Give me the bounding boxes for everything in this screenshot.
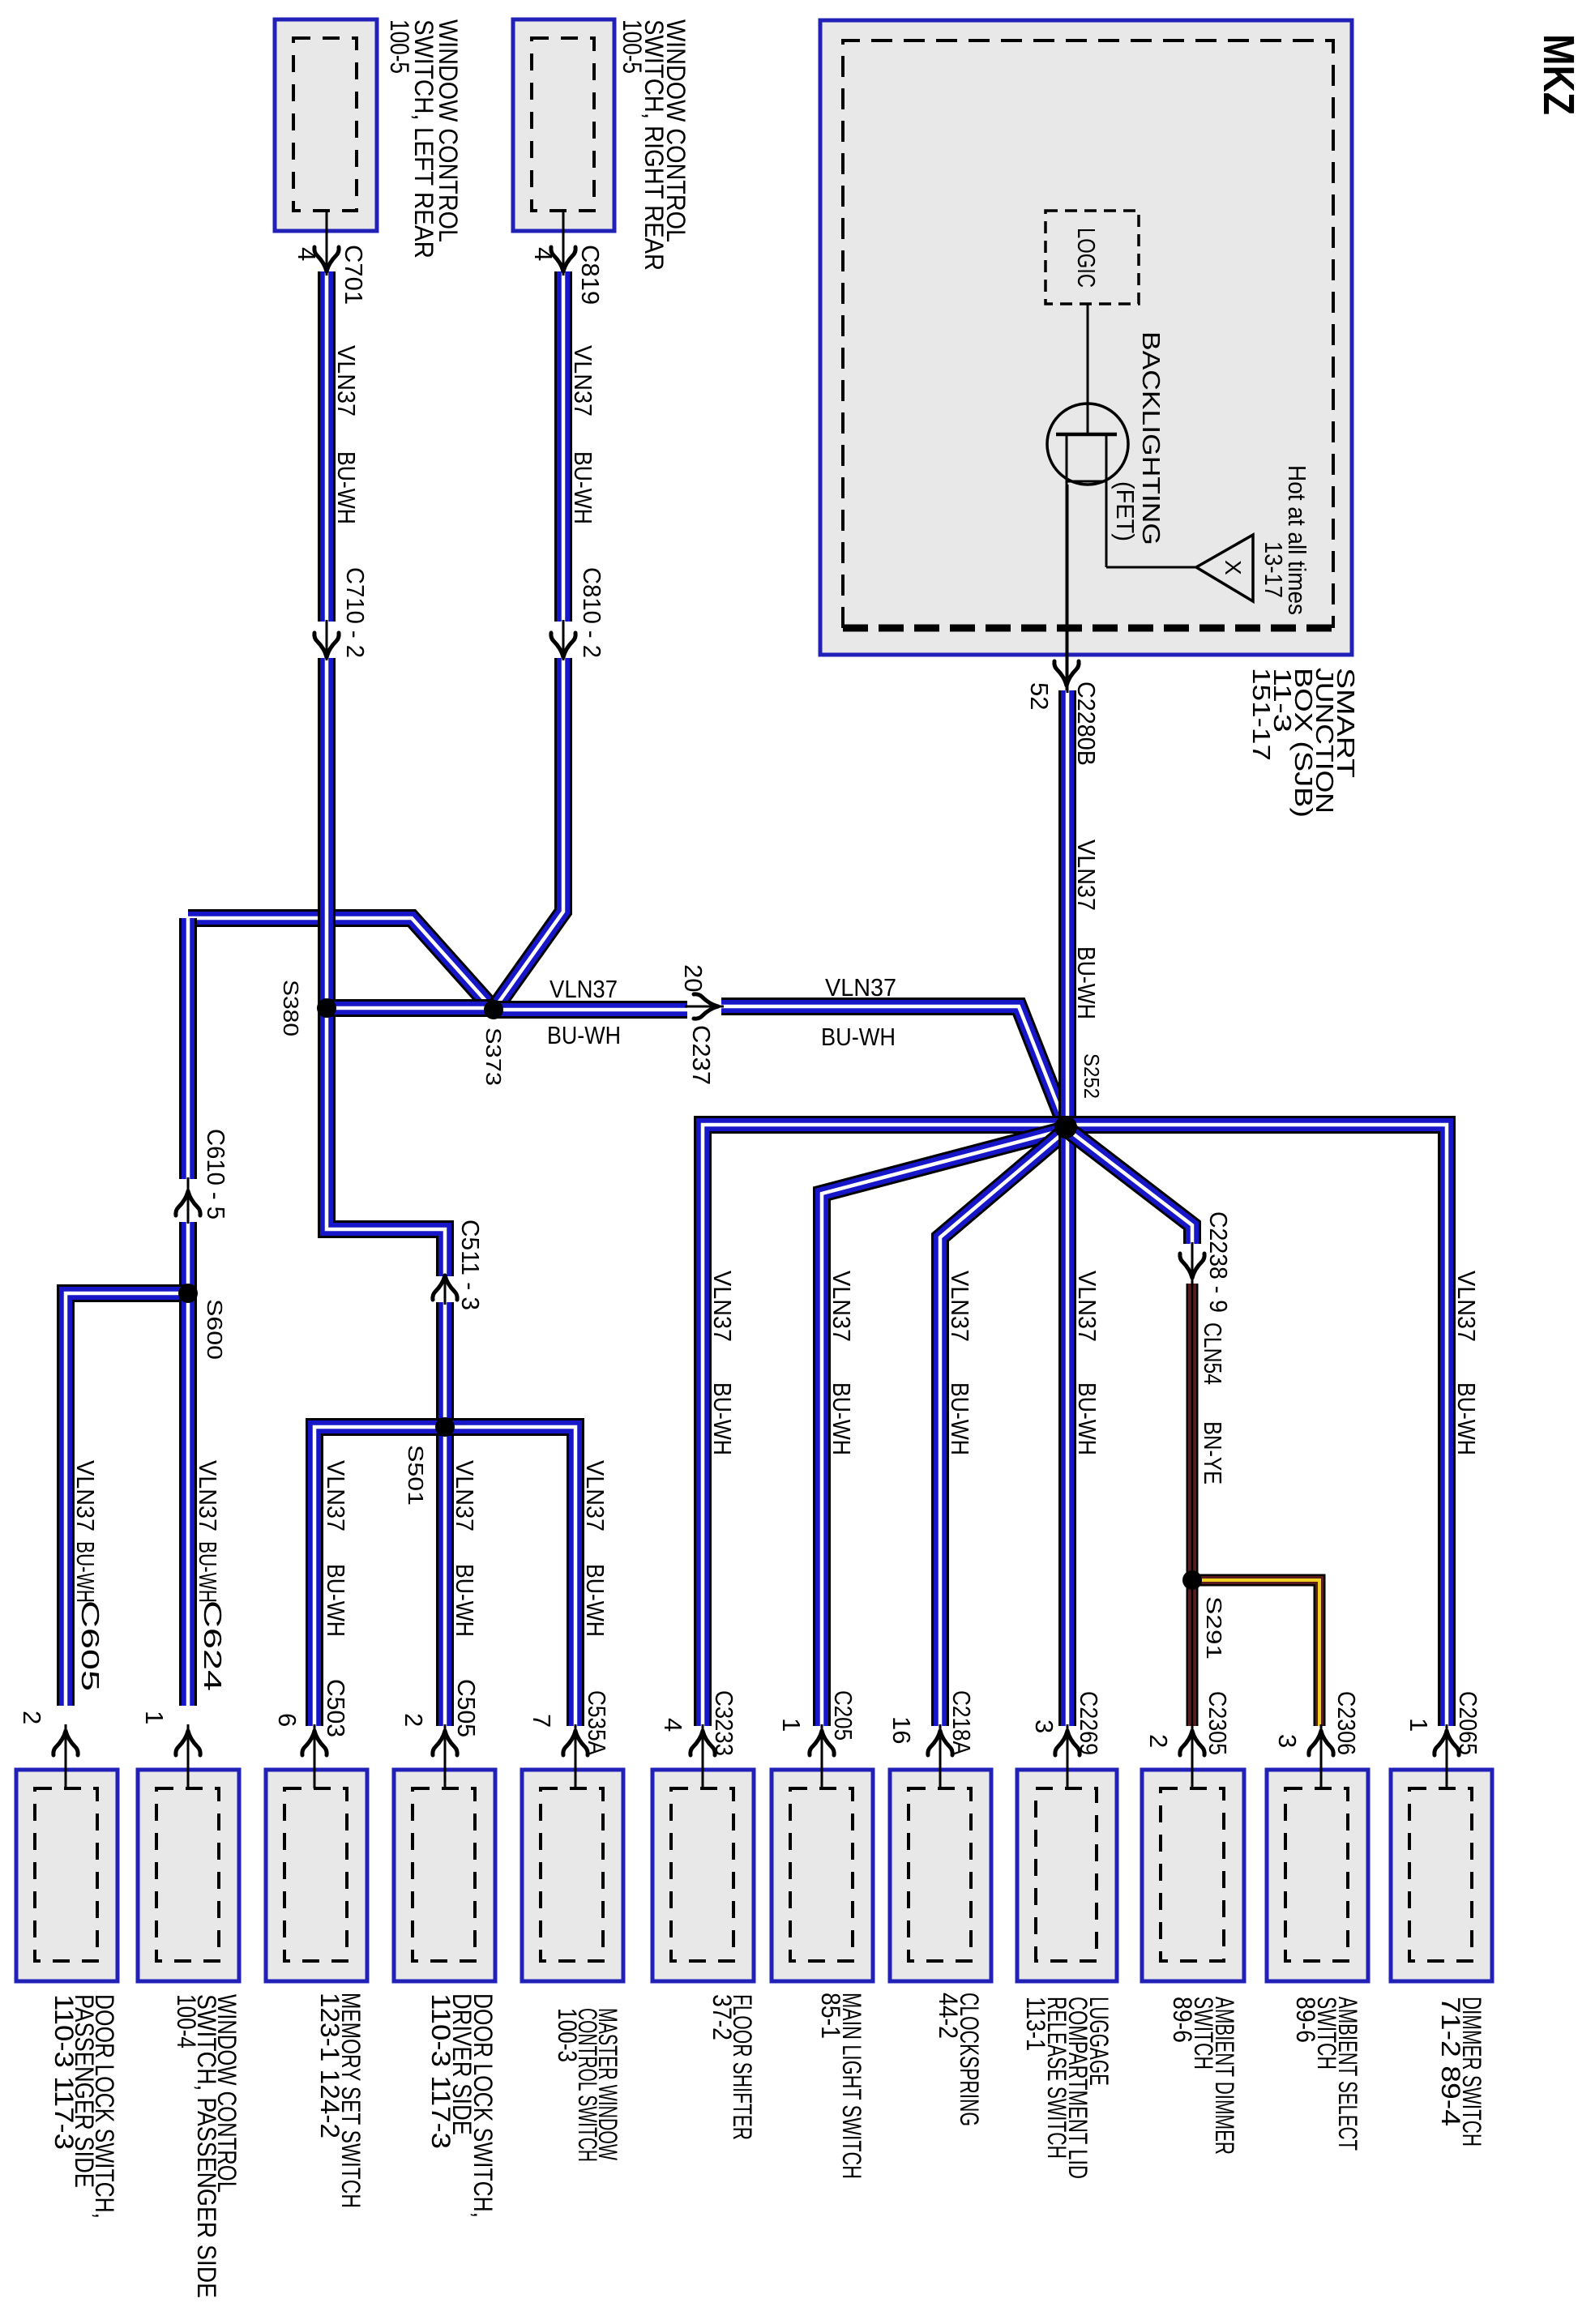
svg-text:VLN37: VLN37 [322, 1460, 350, 1532]
svg-text:100-3: 100-3 [553, 2008, 582, 2062]
svg-text:16: 16 [887, 1716, 916, 1744]
svg-text:VLN37: VLN37 [569, 345, 597, 417]
svg-text:BU-WH: BU-WH [547, 1021, 621, 1049]
connector box: AMBIENT DIMMER SWITCH [1142, 1770, 1244, 1981]
label clockspring [934, 1993, 984, 2126]
connector box: DIMMER SWITCH [1391, 1770, 1492, 1981]
svg-text:S380: S380 [279, 980, 303, 1036]
connector arrow bottom box 9 [1055, 1731, 1080, 1755]
connector arrow C701 [314, 247, 339, 271]
svg-text:VLN37: VLN37 [71, 1460, 100, 1532]
label floor shifter [708, 1994, 757, 2140]
svg-text:1: 1 [1405, 1718, 1433, 1732]
connector box: MEMORY SET SWITCH [266, 1770, 367, 1981]
wire logic to FET gate [1087, 304, 1089, 434]
svg-text:100-4: 100-4 [172, 1994, 201, 2048]
svg-text:44-2: 44-2 [934, 1993, 963, 2039]
wire VLN37 from C819 upper segment [554, 271, 572, 622]
connector arrow bottom box 8 [928, 1731, 952, 1755]
wire CLN54 BN-YE S291 to C2305 [1187, 1580, 1199, 1726]
stub at C710-2 [326, 620, 328, 660]
svg-text:110-3 117-3: 110-3 117-3 [426, 1993, 455, 2149]
svg-text:C710 - 2: C710 - 2 [341, 567, 370, 658]
wire FET drain to fuse [1106, 566, 1196, 569]
svg-text:C205: C205 [829, 1690, 857, 1741]
stub into bottom box 6 [702, 1724, 704, 1788]
wire VLN37 S252 down to C2269 [1058, 1127, 1076, 1726]
svg-text:C610 - 5: C610 - 5 [202, 1129, 230, 1220]
wire VLN37 S252 diagonal to C2238-9 [1070, 1131, 1192, 1244]
connector arrow bottom box 3 [302, 1731, 327, 1755]
connector arrow bottom box 2 [176, 1731, 200, 1755]
svg-text:C3233: C3233 [710, 1690, 738, 1756]
wire VLN37 S252 bus right to C2065 [1066, 1125, 1447, 1726]
stub into bottom box 11 [1320, 1724, 1323, 1788]
svg-text:C535A: C535A [583, 1690, 611, 1755]
svg-text:C2238 - 9: C2238 - 9 [1204, 1211, 1233, 1313]
svg-text:VLN37: VLN37 [946, 1271, 974, 1342]
connector arrow bottom box 7 [810, 1731, 834, 1755]
connector box: CLOCKSPRING [890, 1770, 991, 1981]
wire VLN37 horizontal branch to S373 [188, 918, 494, 1010]
svg-text:BU-WH: BU-WH [1072, 946, 1101, 1019]
stub into bottom box 8 [939, 1724, 942, 1788]
svg-text:S291: S291 [1202, 1596, 1226, 1660]
svg-text:(FET): (FET) [1111, 481, 1140, 541]
svg-text:X: X [1221, 560, 1246, 575]
wire VLN37 SJB C2280B to S252 trunk [1058, 690, 1076, 1127]
svg-text:100-5: 100-5 [385, 19, 414, 74]
splice S373 [484, 1000, 503, 1019]
label ambient select switch [1291, 1997, 1362, 2151]
svg-text:1: 1 [777, 1718, 806, 1732]
svg-text:89-6: 89-6 [1168, 1997, 1197, 2043]
fuse symbol (triangle with X) [1196, 535, 1253, 601]
svg-text:BU-WH: BU-WH [821, 1023, 896, 1051]
svg-text:VLN37: VLN37 [451, 1460, 479, 1532]
FET channel left / source lead [1066, 434, 1068, 690]
smart junction box SJB outline [820, 20, 1352, 655]
svg-text:C810 - 2: C810 - 2 [578, 567, 606, 658]
wire VLN37 S252 diagonal to C205 [822, 1130, 1062, 1726]
wire VLN37 branch down to C610-5 [179, 918, 197, 1179]
svg-text:VLN37: VLN37 [549, 975, 618, 1003]
svg-text:S600: S600 [203, 1299, 227, 1360]
stub into bottom box 3 [314, 1724, 316, 1788]
svg-text:BU-WH: BU-WH [581, 1564, 609, 1637]
wire VLN37 S373 to C237 [494, 1001, 687, 1019]
connector arrow bottom box 1 [53, 1731, 78, 1755]
wire CLN54 BN-YE S291 to C2306 [1192, 1580, 1319, 1726]
splice S252 [1054, 1116, 1077, 1139]
svg-text:1: 1 [140, 1711, 169, 1724]
label window control switch left rear [385, 19, 463, 258]
svg-text:BACKLIGHTING: BACKLIGHTING [1137, 331, 1165, 545]
connector box: DOOR LOCK SWITCH DRIVER SIDE [394, 1770, 495, 1981]
label master window control switch [553, 2008, 622, 2162]
svg-text:BU-WH: BU-WH [194, 1541, 222, 1603]
svg-text:13-17: 13-17 [1259, 541, 1288, 598]
connector arrow C710-2 [314, 633, 339, 657]
wire VLN37 C710-2 to S380 and down to bend [327, 658, 445, 1276]
svg-text:71-2 89-4: 71-2 89-4 [1436, 1997, 1465, 2126]
wire VLN37 S252 bus left to C3233 [703, 1125, 1066, 1726]
wire VLN37 C810-2 to S373 via diagonal [494, 658, 563, 1010]
stub at C810-2 [562, 620, 565, 660]
svg-text:C701: C701 [340, 245, 368, 305]
FET transistor circle [1047, 404, 1128, 485]
svg-text:2: 2 [1144, 1734, 1173, 1748]
svg-text:C237: C237 [687, 1025, 716, 1085]
svg-text:BU-WH: BU-WH [451, 1564, 479, 1637]
svg-text:VLN37: VLN37 [825, 973, 896, 1002]
stub at C610-5 [187, 1177, 190, 1224]
connector box: MASTER WINDOW CONTROL SWITCH [522, 1770, 623, 1981]
FET channel right / drain lead [1105, 434, 1108, 567]
connector box: LUGGAGE COMPARTMENT LID RELEASE SWITCH [1017, 1770, 1117, 1981]
wire S501 bar to C503 and C535A [314, 1427, 575, 1726]
stub into bottom box 1 [65, 1724, 67, 1788]
svg-text:VLN37: VLN37 [332, 345, 361, 417]
svg-text:2: 2 [18, 1711, 46, 1724]
svg-text:4: 4 [529, 247, 558, 261]
label dimmer switch [1436, 1997, 1486, 2147]
svg-text:S373: S373 [481, 1027, 506, 1086]
svg-text:C218A: C218A [947, 1690, 976, 1755]
label SJB name [1247, 668, 1360, 818]
label luggage compartment lid release switch [1021, 1997, 1114, 2179]
svg-text:123-1 124-2: 123-1 124-2 [315, 1993, 344, 2138]
wire VLN37 from C701 upper segment [318, 271, 336, 622]
connector box: WINDOW CONTROL SWITCH RIGHT REAR [513, 19, 614, 231]
connector arrow C237 [694, 994, 718, 1019]
splice S291 [1182, 1570, 1202, 1590]
svg-text:MKZ: MKZ [1534, 34, 1583, 115]
svg-text:S252: S252 [1080, 1053, 1104, 1099]
label window control switch right rear [618, 19, 691, 271]
svg-text:2: 2 [400, 1713, 428, 1727]
svg-text:C819: C819 [576, 245, 605, 305]
svg-text:VLN37: VLN37 [708, 1271, 737, 1342]
svg-text:VLN37: VLN37 [1452, 1271, 1481, 1342]
svg-text:3: 3 [1273, 1734, 1302, 1748]
svg-text:4: 4 [659, 1718, 687, 1732]
svg-text:20: 20 [679, 964, 708, 992]
label door lock switch passenger side [49, 1994, 119, 2219]
wire VLN37 C237 to S252 [721, 1006, 1066, 1126]
connector arrow C2280B [1054, 661, 1079, 686]
label window control switch passenger side [172, 1994, 242, 2298]
connector arrow bottom box 6 [691, 1731, 715, 1755]
svg-text:C2306: C2306 [1332, 1691, 1361, 1755]
FET gate bar [1056, 433, 1117, 437]
svg-text:100-5: 100-5 [618, 19, 647, 74]
svg-text:BU-WH: BU-WH [827, 1382, 856, 1455]
wire VLN37 C511-3 to S501 to C505 [436, 1302, 454, 1726]
stub C2280B from SJB [1067, 485, 1069, 693]
label door lock switch driver side [426, 1993, 498, 2218]
connector arrow bottom box 12 [1435, 1731, 1459, 1755]
svg-text:37-2: 37-2 [708, 1994, 737, 2040]
stub at C237 [685, 1006, 724, 1008]
svg-text:VLN37: VLN37 [581, 1460, 609, 1532]
svg-text:S501: S501 [404, 1445, 428, 1506]
splice S600 [178, 1284, 198, 1303]
connector arrow bottom box 4 [433, 1731, 457, 1755]
connector arrow C511-3 [433, 1275, 457, 1300]
svg-text:52: 52 [1025, 682, 1054, 710]
svg-text:VLN37: VLN37 [1072, 839, 1101, 911]
stub into bottom box 7 [821, 1724, 823, 1788]
svg-text:VLN37: VLN37 [1073, 1271, 1101, 1342]
wire VLN37 S380 to S373 [327, 999, 494, 1017]
stub into bottom box 12 [1446, 1724, 1448, 1788]
splice S501 [435, 1417, 455, 1437]
connector box: AMBIENT SELECT SWITCH [1267, 1770, 1368, 1981]
FET channel bottom [1066, 481, 1106, 483]
svg-text:C503: C503 [322, 1679, 350, 1737]
stub into bottom box 2 [187, 1724, 190, 1788]
svg-text:BU-WH: BU-WH [71, 1541, 100, 1603]
svg-text:7: 7 [528, 1714, 556, 1728]
label memory set switch [315, 1993, 366, 2208]
svg-text:LOGIC: LOGIC [1072, 228, 1101, 288]
svg-text:113-1: 113-1 [1021, 1997, 1050, 2051]
connector arrow C819 [551, 247, 575, 271]
logic block (dashed) [1046, 211, 1139, 304]
svg-text:C505: C505 [452, 1679, 481, 1737]
connector box: MAIN LIGHT SWITCH [772, 1770, 873, 1981]
svg-text:C605: C605 [76, 1600, 105, 1691]
wire VLN37 S600 down to C624 [179, 1293, 197, 1706]
svg-text:BU-WH: BU-WH [569, 451, 597, 524]
svg-text:110-3 117-3: 110-3 117-3 [49, 1994, 79, 2150]
stub C819 into box [562, 209, 565, 276]
splice S380 [317, 998, 336, 1018]
stub into bottom box 10 [1191, 1724, 1194, 1788]
stub into bottom box 4 [444, 1724, 447, 1788]
connector box: DOOR LOCK SWITCH PASSENGER SIDE [16, 1770, 118, 1981]
connector arrow C2238-9 [1180, 1254, 1204, 1278]
connector box: WINDOW CONTROL SWITCH PASSENGER SIDE [138, 1770, 239, 1981]
stub C701 into box [326, 209, 328, 276]
connector arrow bottom box 10 [1180, 1731, 1204, 1755]
stub at C2238-9 [1191, 1242, 1194, 1286]
connector box: WINDOW CONTROL SWITCH LEFT REAR [275, 19, 377, 231]
svg-text:BN-YE: BN-YE [1199, 1421, 1227, 1485]
svg-text:3: 3 [1030, 1720, 1058, 1733]
connector arrow C610-5 [176, 1191, 200, 1215]
stub into bottom box 5 [575, 1724, 577, 1788]
connector arrow bottom box 5 [563, 1731, 588, 1755]
svg-text:BU-WH: BU-WH [708, 1382, 737, 1455]
svg-text:CLN54: CLN54 [1199, 1322, 1227, 1385]
wire VLN37 S600 left to C605 [66, 1293, 188, 1706]
svg-text:VLN37: VLN37 [194, 1460, 222, 1532]
svg-text:C624: C624 [199, 1600, 227, 1691]
svg-text:VLN37: VLN37 [827, 1271, 856, 1342]
connector arrow C810-2 [551, 633, 575, 657]
svg-text:85-1: 85-1 [816, 1993, 845, 2039]
stub into bottom box 9 [1067, 1724, 1069, 1788]
svg-text:C2305: C2305 [1204, 1691, 1232, 1755]
svg-text:BU-WH: BU-WH [322, 1564, 350, 1637]
svg-text:BU-WH: BU-WH [1452, 1382, 1481, 1455]
stub at C511-3 [444, 1274, 447, 1305]
label ambient dimmer switch [1168, 1997, 1239, 2155]
svg-text:C2269: C2269 [1075, 1691, 1103, 1755]
connector box: FLOOR SHIFTER [652, 1770, 754, 1981]
svg-text:C2280B: C2280B [1072, 681, 1101, 766]
wire VLN37 S252 diagonal to C218A [940, 1133, 1063, 1726]
connector arrow bottom box 11 [1309, 1731, 1333, 1755]
svg-text:4: 4 [293, 247, 321, 261]
svg-text:C511 - 3: C511 - 3 [456, 1220, 485, 1310]
wire CLN54 BN-YE C2238-9 to S291 [1187, 1284, 1199, 1580]
svg-text:BU-WH: BU-WH [332, 451, 361, 524]
svg-text:C2065: C2065 [1454, 1691, 1482, 1755]
svg-text:151-17: 151-17 [1247, 668, 1276, 761]
wire VLN37 C610-5 to S600 [179, 1222, 197, 1293]
svg-text:BU-WH: BU-WH [1073, 1382, 1101, 1455]
svg-text:BU-WH: BU-WH [946, 1382, 974, 1455]
svg-text:89-6: 89-6 [1291, 1997, 1320, 2043]
label main light switch [816, 1993, 866, 2179]
svg-text:6: 6 [273, 1713, 301, 1727]
